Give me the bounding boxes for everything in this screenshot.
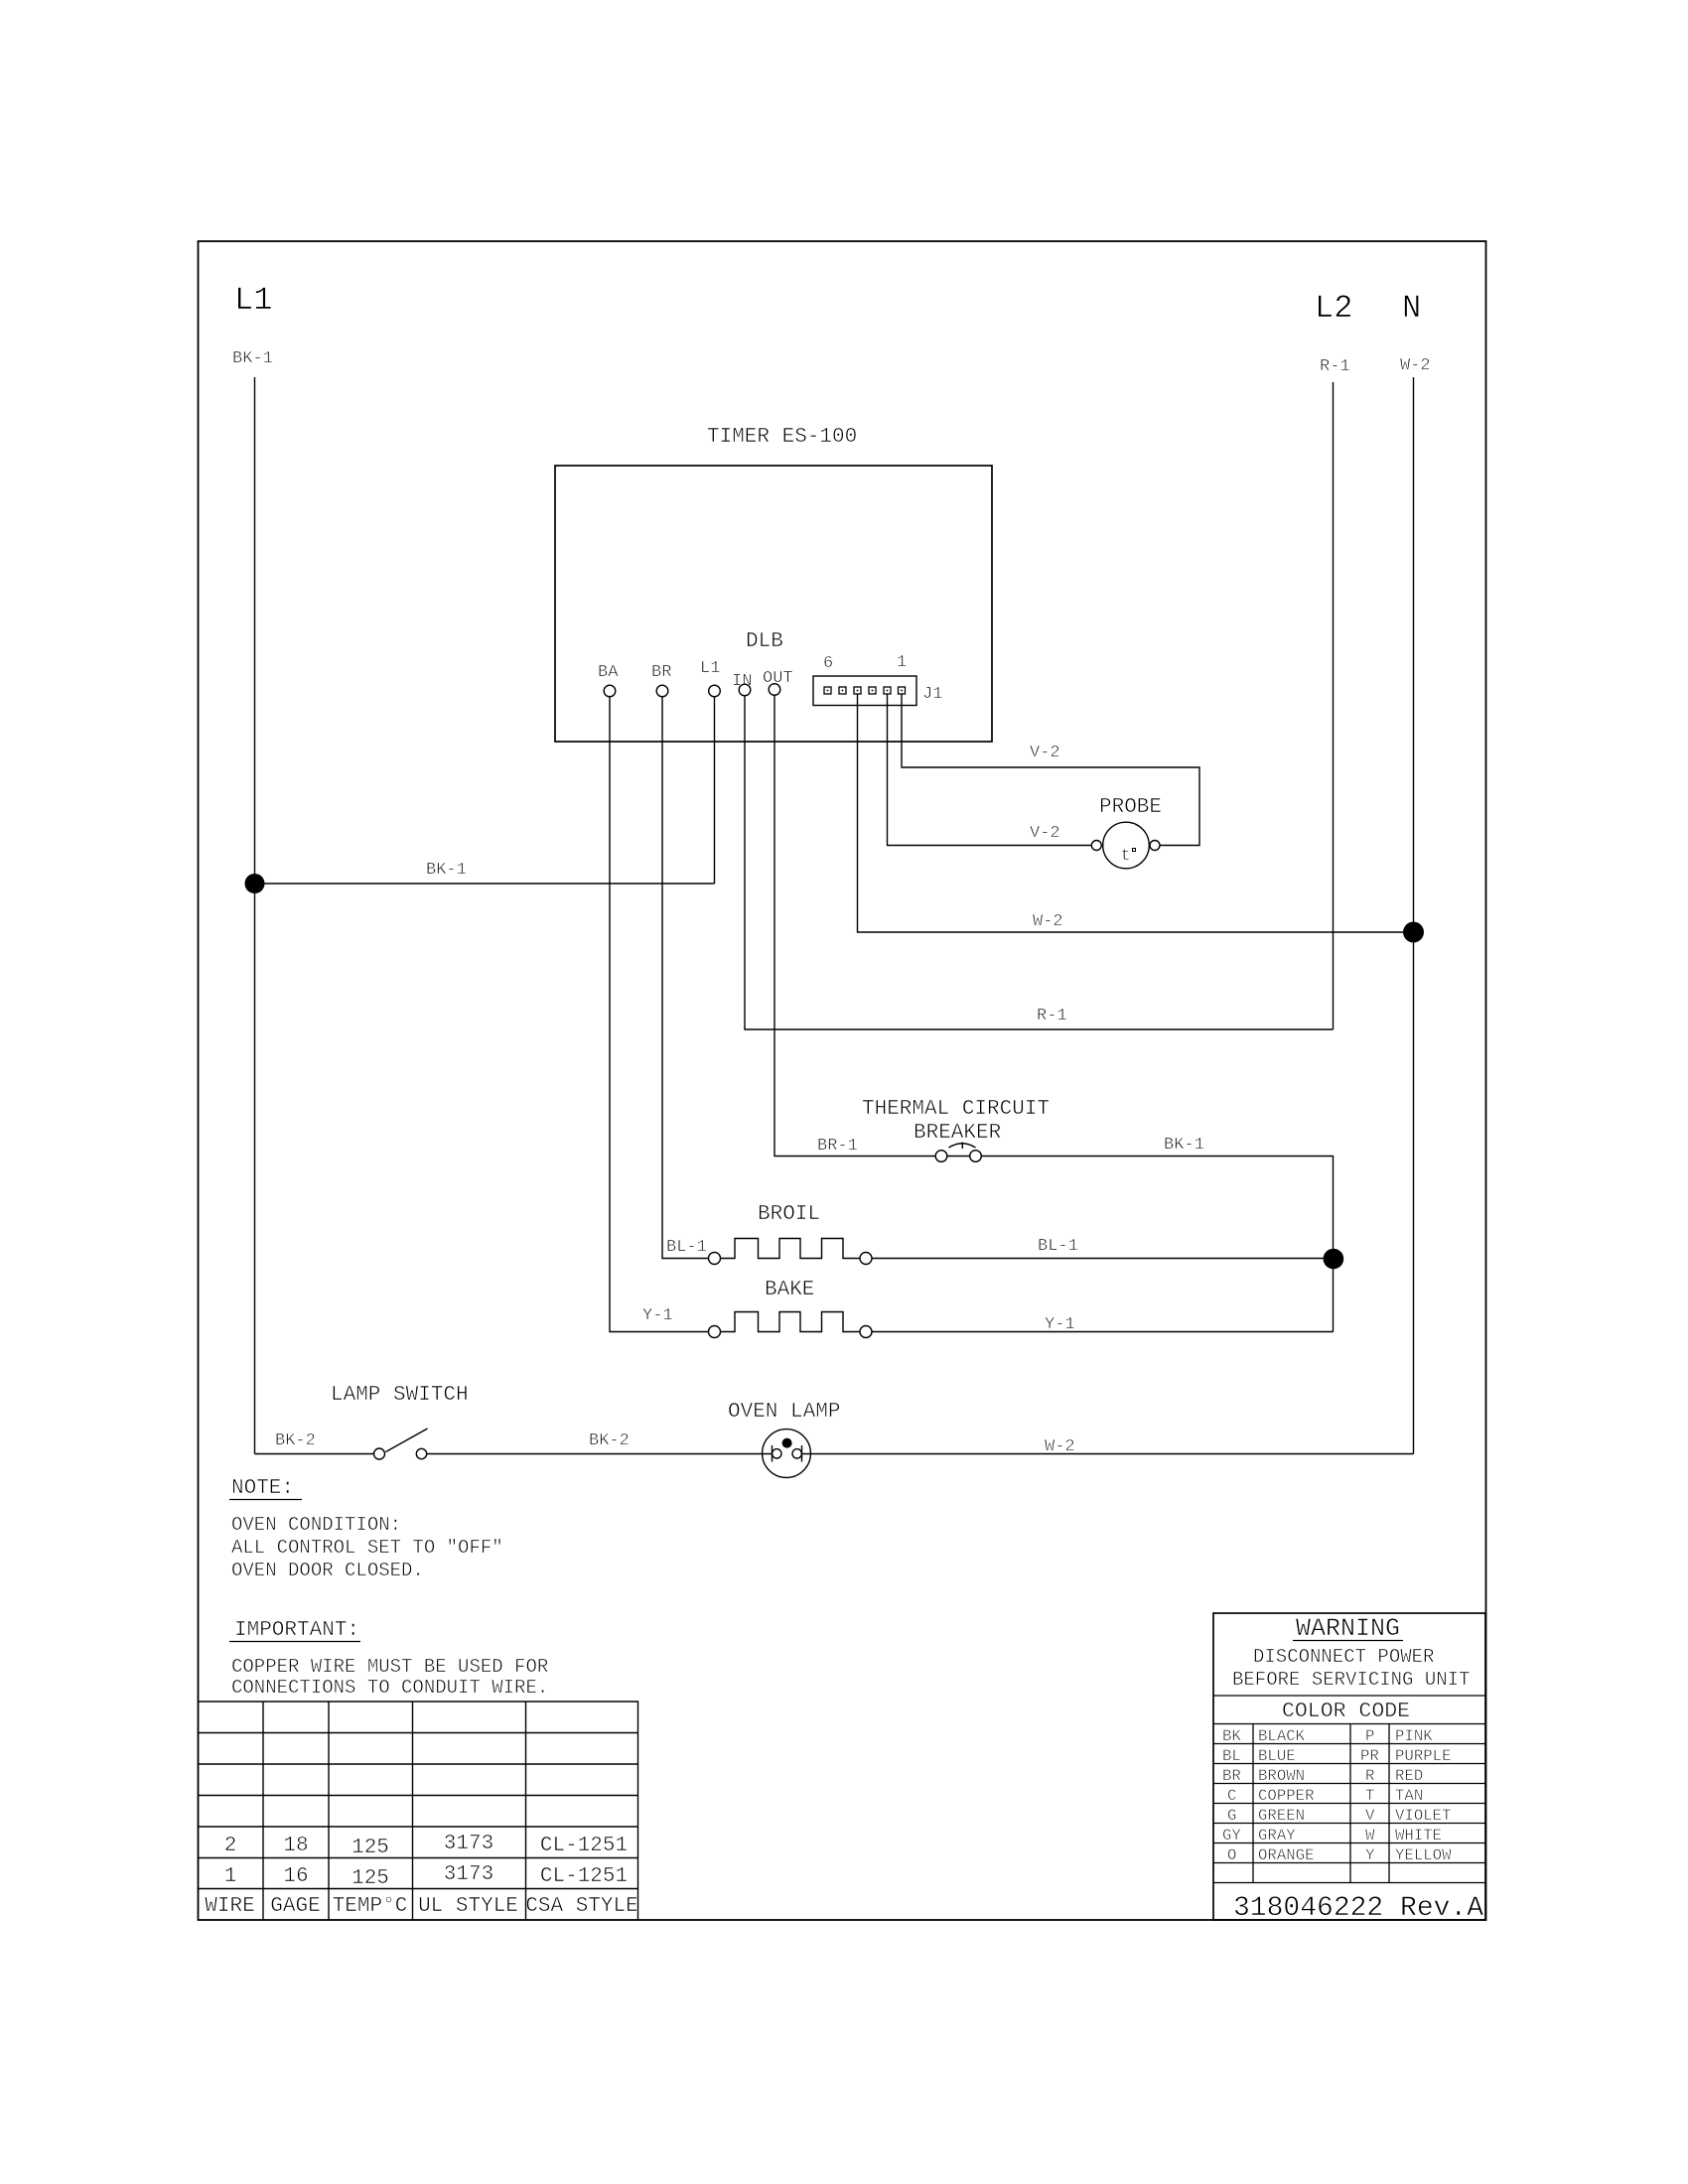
- svg-text:BEFORE SERVICING UNIT: BEFORE SERVICING UNIT: [1232, 1669, 1470, 1691]
- svg-text:125: 125: [352, 1867, 389, 1890]
- svg-text:OVEN DOOR CLOSED.: OVEN DOOR CLOSED.: [231, 1560, 424, 1581]
- svg-text:BREAKER: BREAKER: [914, 1122, 1002, 1145]
- svg-text:GRAY: GRAY: [1258, 1827, 1296, 1844]
- svg-text:J1: J1: [922, 685, 942, 704]
- svg-text:Y: Y: [1365, 1846, 1375, 1864]
- svg-text:CL-1251: CL-1251: [540, 1865, 628, 1888]
- svg-text:BL: BL: [1222, 1747, 1241, 1765]
- svg-text:BROWN: BROWN: [1258, 1767, 1305, 1785]
- probe degree mark: [1133, 849, 1136, 852]
- svg-text:BROIL: BROIL: [758, 1203, 820, 1226]
- svg-text:GY: GY: [1222, 1827, 1241, 1844]
- svg-text:WHITE: WHITE: [1395, 1827, 1442, 1844]
- svg-text:L1: L1: [234, 282, 272, 319]
- terminal BR: [656, 685, 668, 697]
- svg-text:GAGE: GAGE: [270, 1895, 320, 1918]
- lamp switch blade: [386, 1429, 428, 1452]
- svg-text:OVEN LAMP: OVEN LAMP: [728, 1401, 840, 1424]
- wire BK-1 horizontal to timer L1: [255, 883, 715, 885]
- broil terminal right: [860, 1253, 872, 1265]
- terminal OUT: [769, 684, 780, 696]
- svg-text:BK-2: BK-2: [589, 1432, 630, 1450]
- lamp switch terminal left: [374, 1448, 385, 1459]
- svg-text:Y-1: Y-1: [642, 1306, 673, 1325]
- svg-text:BR: BR: [651, 663, 671, 682]
- svg-text:18: 18: [283, 1835, 308, 1857]
- svg-text:BL-1: BL-1: [666, 1238, 707, 1257]
- terminal BA: [604, 685, 616, 697]
- terminal L1: [709, 685, 721, 697]
- svg-text:DLB: DLB: [746, 630, 783, 653]
- svg-text:2: 2: [224, 1835, 237, 1857]
- svg-text:BK-1: BK-1: [426, 861, 467, 880]
- broil terminal left: [709, 1253, 721, 1265]
- wire gauge table row 2: [224, 1833, 628, 1859]
- svg-text:COPPER WIRE MUST BE USED FOR: COPPER WIRE MUST BE USED FOR: [231, 1656, 548, 1678]
- svg-text:WARNING: WARNING: [1296, 1614, 1400, 1643]
- svg-text:1: 1: [897, 653, 907, 672]
- svg-text:L2: L2: [1315, 290, 1352, 327]
- wire timer L1 riser: [714, 697, 716, 884]
- wire W-2 lamp to N rail: [802, 1453, 1414, 1455]
- svg-text:C: C: [1227, 1787, 1236, 1805]
- svg-text:W-2: W-2: [1045, 1437, 1075, 1456]
- svg-text:W-2: W-2: [1400, 356, 1431, 375]
- bake heating element: [721, 1312, 861, 1332]
- svg-text:BLACK: BLACK: [1258, 1727, 1306, 1745]
- svg-text:L1: L1: [700, 659, 720, 678]
- svg-text:RED: RED: [1395, 1767, 1423, 1785]
- probe body: [1103, 822, 1150, 869]
- svg-text:R-1: R-1: [1320, 357, 1350, 376]
- timer ES-100 box: [555, 466, 992, 742]
- wire BR to broil element: [662, 697, 709, 1259]
- junction dot L1/BK-1: [245, 874, 265, 893]
- svg-text:BL-1: BL-1: [1038, 1237, 1078, 1256]
- wire BK-1 from breaker to right rail: [982, 1157, 1334, 1332]
- svg-text:BA: BA: [598, 663, 619, 682]
- svg-text:W-2: W-2: [1033, 912, 1063, 931]
- svg-text:V-2: V-2: [1030, 824, 1060, 843]
- connector J1 body: [813, 676, 916, 706]
- svg-text:3173: 3173: [444, 1833, 493, 1855]
- svg-text:TAN: TAN: [1395, 1787, 1423, 1805]
- wire J1 pin W-2: [858, 694, 1404, 932]
- bake terminal left: [709, 1326, 721, 1338]
- wire N vertical W-2: [1413, 377, 1415, 1454]
- wire J1 pin V-2 upper: [902, 694, 1199, 846]
- svg-text:UL STYLE: UL STYLE: [418, 1895, 518, 1918]
- svg-text:PROBE: PROBE: [1099, 796, 1162, 819]
- broil heating element: [721, 1239, 861, 1259]
- svg-text:T: T: [1365, 1787, 1374, 1805]
- terminal IN: [739, 684, 751, 696]
- svg-text:THERMAL CIRCUIT: THERMAL CIRCUIT: [862, 1098, 1050, 1121]
- oven lamp body: [763, 1430, 811, 1478]
- svg-text:BK-1: BK-1: [1164, 1136, 1204, 1155]
- svg-text:BLUE: BLUE: [1258, 1747, 1296, 1765]
- warning box: [1213, 1613, 1485, 1920]
- thermal breaker link wire: [947, 1156, 970, 1158]
- svg-text:1: 1: [224, 1865, 237, 1888]
- wire L1 to lamp switch: [255, 1453, 374, 1455]
- svg-text:PR: PR: [1360, 1747, 1379, 1765]
- wire L2 vertical R-1: [1333, 382, 1335, 1029]
- svg-text:N: N: [1402, 290, 1421, 327]
- thermal breaker arc: [949, 1144, 976, 1148]
- junction dot W-2/N: [1403, 922, 1424, 943]
- thermal breaker terminal right: [970, 1151, 982, 1162]
- wire J1 pin V-2 lower: [888, 694, 1092, 846]
- wire BL-1 to junction: [872, 1258, 1334, 1260]
- svg-text:NOTE:: NOTE:: [231, 1477, 294, 1500]
- svg-text:16: 16: [283, 1865, 308, 1888]
- svg-text:BAKE: BAKE: [765, 1279, 814, 1301]
- svg-text:PURPLE: PURPLE: [1395, 1747, 1451, 1765]
- svg-text:G: G: [1227, 1807, 1236, 1825]
- svg-text:COPPER: COPPER: [1258, 1787, 1315, 1805]
- wire Y-1 to right rail: [872, 1331, 1334, 1333]
- svg-text:BR: BR: [1222, 1767, 1241, 1785]
- svg-text:125: 125: [352, 1837, 389, 1859]
- color code rows: [1222, 1727, 1452, 1864]
- svg-text:PINK: PINK: [1395, 1727, 1433, 1745]
- svg-text:COLOR CODE: COLOR CODE: [1282, 1700, 1410, 1723]
- svg-text:t: t: [1121, 847, 1131, 866]
- wire OUT to thermal breaker: [774, 696, 935, 1157]
- lamp switch terminal right: [416, 1448, 426, 1458]
- svg-text:BK: BK: [1222, 1727, 1241, 1745]
- svg-text:318046222 Rev.A: 318046222 Rev.A: [1233, 1893, 1483, 1924]
- wire BK-2 switch to lamp: [427, 1453, 773, 1455]
- wire gauge table grid: [199, 1702, 638, 1920]
- probe terminal right: [1150, 841, 1160, 851]
- svg-text:P: P: [1365, 1727, 1374, 1745]
- svg-text:O: O: [1227, 1846, 1236, 1864]
- thermal breaker arc tick: [961, 1143, 963, 1150]
- svg-text:R: R: [1365, 1767, 1375, 1785]
- svg-text:CL-1251: CL-1251: [540, 1835, 628, 1857]
- svg-text:IMPORTANT:: IMPORTANT:: [234, 1619, 359, 1642]
- svg-text:BK-1: BK-1: [232, 349, 273, 368]
- oven lamp contact bars: [773, 1445, 802, 1462]
- svg-text:CONNECTIONS TO CONDUIT WIRE.: CONNECTIONS TO CONDUIT WIRE.: [231, 1677, 548, 1699]
- bake terminal right: [860, 1326, 872, 1338]
- svg-text:LAMP SWITCH: LAMP SWITCH: [331, 1384, 469, 1407]
- svg-text:3173: 3173: [444, 1863, 493, 1886]
- svg-text:V-2: V-2: [1030, 744, 1060, 762]
- wire BA to bake element: [610, 697, 709, 1332]
- svg-text:W: W: [1365, 1827, 1375, 1844]
- svg-text:VIOLET: VIOLET: [1395, 1807, 1451, 1825]
- svg-text:ALL CONTROL SET TO "OFF": ALL CONTROL SET TO "OFF": [231, 1537, 503, 1559]
- svg-text:IN: IN: [732, 672, 752, 691]
- wire gauge table row 1: [224, 1863, 628, 1890]
- svg-text:6: 6: [823, 654, 833, 673]
- junction dot BL-1: [1324, 1249, 1344, 1270]
- svg-text:V: V: [1365, 1807, 1375, 1825]
- oven lamp contact circles: [773, 1449, 781, 1458]
- probe terminal left: [1091, 841, 1101, 851]
- svg-text:WIRE: WIRE: [205, 1895, 254, 1918]
- svg-text:DISCONNECT POWER: DISCONNECT POWER: [1253, 1646, 1434, 1668]
- wire gauge table header: [205, 1895, 637, 1918]
- svg-text:TIMER ES-100: TIMER ES-100: [707, 426, 857, 449]
- svg-text:ORANGE: ORANGE: [1258, 1846, 1314, 1864]
- J1 pin squares: [824, 687, 906, 694]
- svg-text:TEMP°C: TEMP°C: [333, 1895, 408, 1918]
- border frame: [199, 241, 1486, 1920]
- svg-text:R-1: R-1: [1037, 1007, 1067, 1025]
- wire L1 vertical BK-1: [254, 377, 256, 1454]
- oven lamp filament dot: [782, 1438, 792, 1448]
- svg-text:BR-1: BR-1: [817, 1137, 858, 1156]
- svg-text:OVEN CONDITION:: OVEN CONDITION:: [231, 1514, 401, 1536]
- svg-text:CSA STYLE: CSA STYLE: [525, 1895, 637, 1918]
- svg-text:BK-2: BK-2: [275, 1432, 316, 1450]
- thermal breaker terminal left: [935, 1151, 947, 1162]
- wire IN to R-1 rail: [745, 696, 1334, 1029]
- svg-text:GREEN: GREEN: [1258, 1807, 1305, 1825]
- svg-text:YELLOW: YELLOW: [1395, 1846, 1452, 1864]
